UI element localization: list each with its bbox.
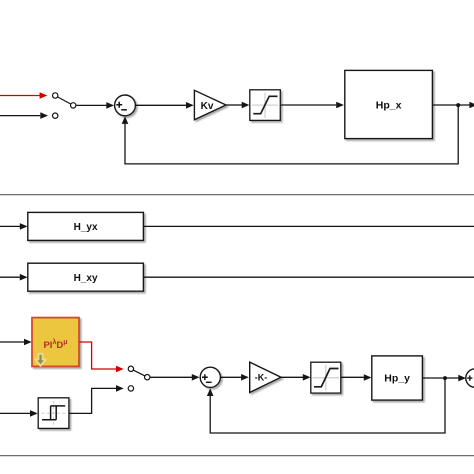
arrowhead into sum S1 [106, 102, 114, 109]
arrowhead into gain Kv [186, 102, 194, 109]
wire: H_yx output [144, 225, 474, 227]
svg-text:Hp_x: Hp_x [376, 99, 402, 111]
coupling block H_xy [28, 263, 144, 291]
manual switch SW2 common contact [145, 375, 150, 380]
wire: saturation SAT2 to plant Hp_y [341, 376, 364, 378]
plant block Hp_x [345, 70, 433, 138]
wire: top feedback loop [125, 105, 458, 164]
arrowhead into fractional PID [24, 339, 32, 346]
arrowhead black into switch SW2 lower [116, 385, 124, 392]
node: top output junction [456, 103, 460, 107]
wire: switch SW1 to sum S1 [76, 104, 106, 106]
svg-text:H_yx: H_yx [74, 222, 98, 233]
wire: bottom feedback loop [210, 378, 445, 433]
wire: input to H_yx [0, 225, 20, 227]
manual switch SW1 lever [58, 97, 72, 104]
fractional PID controller block PI^lambda D^mu [32, 318, 79, 367]
manual switch SW2 contact lower [128, 386, 133, 391]
manual switch SW1 common contact [71, 103, 76, 108]
arrowhead into plant Hp_x [336, 102, 344, 109]
sum junction S2 [200, 367, 220, 387]
saturation block SAT2 [311, 362, 341, 393]
node: bottom output junction [443, 376, 447, 380]
sum junction S3 at right edge [466, 369, 474, 387]
coupling block H_yx [28, 212, 144, 240]
separator line upper [0, 194, 474, 196]
wire: plant Hp_x output [433, 104, 470, 106]
sum junction S1 [115, 95, 136, 116]
arrowhead into saturation SAT2 [303, 374, 311, 381]
wire: red from fractional PID to switch SW2 [80, 342, 117, 369]
gain Kv [194, 90, 226, 120]
svg-text:Hp_y: Hp_y [384, 372, 410, 384]
arrowhead feedback into sum S1 bottom [122, 116, 129, 124]
wire: plant Hp_y output [423, 377, 459, 379]
svg-text:Kv: Kv [201, 101, 214, 112]
wire: saturation SAT1 to plant Hp_x [281, 104, 337, 106]
arrowhead into relay [30, 410, 38, 417]
manual switch SW1 contact lower [53, 113, 58, 118]
arrowhead top output at right edge [469, 102, 474, 109]
wire: black alternate input (top section) [0, 115, 40, 117]
wire: sum S1 to gain Kv [136, 104, 186, 106]
arrowhead into H_yx [20, 223, 28, 230]
saturation block SAT1 [250, 90, 280, 121]
wire: input to relay [0, 412, 30, 414]
wire: red reference input (top section) [0, 95, 40, 97]
wire: H_xy output [144, 276, 474, 278]
arrowhead into sum S3 [458, 375, 466, 382]
wire: switch SW2 to sum S2 [150, 376, 192, 378]
manual switch SW1 contact upper [53, 93, 58, 98]
separator line lower [0, 455, 474, 457]
arrowhead red into switch SW2 upper [116, 366, 124, 373]
gain block -K- [250, 362, 281, 392]
arrowhead into H_xy [20, 274, 28, 281]
arrowhead into saturation SAT1 [242, 102, 250, 109]
arrowhead into plant Hp_y [364, 374, 372, 381]
wire: gain -K- to saturation SAT2 [281, 376, 303, 378]
wire: gain Kv to saturation SAT1 [226, 104, 242, 106]
arrowhead into sum S2 [192, 374, 200, 381]
arrowhead black input to switch SW1 [40, 112, 48, 119]
manual switch SW2 contact upper [128, 366, 133, 371]
arrowhead red input to switch SW1 [40, 92, 48, 99]
wire: input to fractional PID controller [0, 341, 24, 343]
svg-text:-K-: -K- [255, 373, 268, 383]
wire: sum S2 to gain -K- [221, 376, 242, 378]
plant block Hp_y [372, 356, 423, 400]
manual switch SW2 lever [133, 370, 145, 376]
svg-text:H_xy: H_xy [74, 273, 98, 284]
arrowhead feedback into sum S2 bottom [207, 388, 214, 396]
relay block [38, 398, 69, 429]
wire: input to H_xy [0, 276, 20, 278]
wire: relay to switch SW2 lower [69, 388, 116, 413]
arrowhead into gain -K- [241, 374, 249, 381]
